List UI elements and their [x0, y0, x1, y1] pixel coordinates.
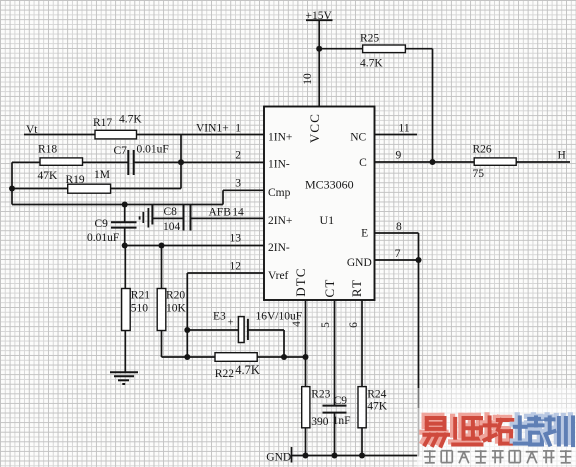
svg-text:4.7K: 4.7K [235, 363, 260, 377]
svg-text:14: 14 [232, 206, 244, 218]
svg-text:DTC: DTC [293, 267, 308, 297]
svg-text:C: C [359, 157, 367, 169]
svg-text:E3: E3 [213, 311, 226, 323]
svg-text:R23: R23 [311, 388, 330, 400]
svg-text:13: 13 [230, 233, 242, 245]
svg-text:+: + [228, 318, 234, 329]
svg-text:2IN+: 2IN+ [268, 215, 292, 227]
svg-text:1M: 1M [94, 169, 110, 181]
svg-text:GND: GND [347, 257, 372, 269]
svg-text:CT: CT [322, 278, 337, 297]
svg-text:0.01uF: 0.01uF [87, 232, 119, 244]
svg-text:9: 9 [396, 150, 402, 162]
svg-text:6: 6 [348, 322, 360, 328]
svg-text:47K: 47K [38, 170, 59, 182]
svg-text:NC: NC [350, 131, 366, 143]
svg-text:390: 390 [311, 416, 329, 428]
svg-text:RT: RT [349, 279, 364, 297]
svg-text:Cmp: Cmp [268, 187, 291, 199]
svg-text:R18: R18 [38, 144, 57, 156]
svg-text:12: 12 [230, 261, 242, 273]
svg-text:1IN+: 1IN+ [268, 131, 292, 143]
svg-text:1nF: 1nF [333, 415, 351, 427]
svg-text:C9: C9 [95, 218, 109, 230]
svg-text:R24: R24 [367, 388, 386, 400]
svg-text:8: 8 [396, 221, 402, 233]
svg-text:Vref: Vref [268, 270, 289, 282]
svg-text:1: 1 [235, 122, 241, 134]
svg-text:510: 510 [131, 302, 149, 314]
svg-text:11: 11 [399, 122, 410, 134]
svg-text:Vt: Vt [26, 124, 38, 136]
svg-text:AFB: AFB [209, 206, 232, 218]
svg-text:R19: R19 [66, 174, 85, 186]
svg-text:E: E [361, 228, 368, 240]
svg-text:C9: C9 [334, 395, 348, 407]
svg-text:16V/10uF: 16V/10uF [256, 311, 303, 323]
svg-text:C7: C7 [114, 145, 128, 157]
svg-text:R17: R17 [93, 117, 112, 129]
svg-text:2IN-: 2IN- [268, 242, 290, 254]
svg-text:7: 7 [395, 248, 401, 260]
svg-text:47K: 47K [367, 400, 388, 412]
svg-text:C8: C8 [164, 206, 178, 218]
svg-text:0.01uF: 0.01uF [137, 143, 169, 155]
svg-text:3: 3 [235, 178, 241, 190]
svg-text:R25: R25 [360, 32, 379, 44]
svg-text:1IN-: 1IN- [268, 159, 290, 171]
svg-text:10: 10 [302, 73, 314, 85]
svg-text:R22: R22 [215, 368, 234, 380]
svg-text:R26: R26 [473, 144, 492, 156]
svg-text:4.7K: 4.7K [119, 114, 142, 126]
svg-text:GND: GND [266, 451, 291, 463]
svg-text:H: H [558, 150, 566, 162]
svg-text:R20: R20 [166, 289, 185, 301]
svg-text:5: 5 [320, 322, 332, 328]
svg-text:2: 2 [235, 150, 241, 162]
svg-text:VIN1+: VIN1+ [196, 122, 229, 134]
svg-text:75: 75 [473, 168, 485, 180]
svg-text:R21: R21 [131, 289, 150, 301]
svg-text:4.7K: 4.7K [360, 57, 383, 69]
svg-text:10K: 10K [166, 302, 187, 314]
svg-text:+15V: +15V [306, 10, 333, 22]
svg-text:VCC: VCC [307, 113, 322, 143]
svg-text:U1: U1 [320, 213, 335, 227]
svg-text:104: 104 [163, 221, 181, 233]
svg-text:MC33060: MC33060 [305, 177, 354, 191]
